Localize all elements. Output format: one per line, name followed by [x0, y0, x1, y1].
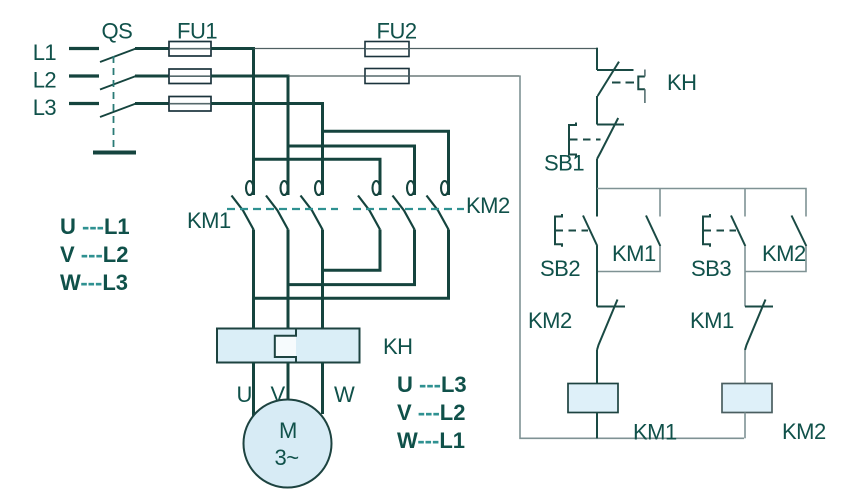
svg-text:L1: L1	[33, 40, 57, 65]
wire coil KM1 to rail	[596, 413, 598, 439]
wire KM2 pole3 to U	[254, 230, 449, 299]
contactor KM1 pole 2 fixed contact	[281, 181, 288, 195]
wire KM1 pole3 down	[321, 230, 324, 329]
label mapping block 2	[397, 372, 467, 453]
wire KM1 pole2 down	[287, 230, 290, 329]
wire L3 to FU1	[135, 102, 170, 105]
thermal relay KH NC contact bar	[597, 69, 634, 71]
svg-text:W---L1: W---L1	[397, 428, 465, 453]
fuse FU1 pole 2	[169, 69, 211, 84]
svg-text:KM2: KM2	[782, 419, 826, 444]
fuse FU2 pole 1	[365, 42, 409, 57]
svg-text:SB2: SB2	[540, 256, 580, 281]
svg-text:FU2: FU2	[377, 19, 417, 44]
contact KM2 aux blade	[792, 216, 807, 247]
motor M circle	[244, 400, 332, 488]
wire KM2 pole2 to V	[288, 230, 415, 285]
wire L2 to FU1	[135, 75, 170, 78]
svg-text:KM2: KM2	[762, 241, 806, 266]
thermal relay KH trip tail	[644, 89, 646, 103]
switch QS handle bar	[93, 151, 136, 155]
svg-text:KM2: KM2	[466, 193, 510, 218]
svg-text:L2: L2	[33, 68, 57, 93]
thermal relay KH heater jog	[275, 329, 296, 363]
contact KM2 NC bar	[597, 306, 625, 308]
svg-text:KH: KH	[667, 70, 697, 95]
thermal relay KH heater box	[217, 329, 360, 363]
contactor KM2 pole 1 blade	[358, 196, 380, 230]
wire L2 drop	[287, 76, 290, 195]
svg-text:V ---L2: V ---L2	[60, 242, 128, 267]
svg-text:L3: L3	[33, 95, 57, 120]
svg-text:KM2: KM2	[528, 308, 572, 333]
wire L1 to FU1	[135, 47, 170, 50]
svg-text:KM1: KM1	[690, 308, 734, 333]
pushbutton SB3 dashes	[704, 230, 737, 232]
wire L1 stub	[69, 47, 99, 50]
thermal relay KH heater notch white	[276, 337, 296, 357]
svg-text:W: W	[334, 382, 355, 407]
wire SB1 to node	[596, 159, 598, 217]
coil KM2	[722, 384, 772, 413]
pushbutton SB2 blade	[583, 216, 597, 247]
svg-text:V ---L2: V ---L2	[397, 400, 465, 425]
contactor KM1 pole 3 blade	[301, 196, 323, 230]
wire SB2 to KM2 NC	[596, 246, 598, 307]
wire W to motor	[321, 363, 324, 415]
contact KM1 aux wire top	[659, 189, 661, 217]
wire FU2 to control left rail	[409, 75, 521, 77]
svg-text:M: M	[279, 418, 297, 443]
pushbutton SB1 bar	[597, 124, 624, 126]
contactor KM1 pole 2 blade	[266, 196, 288, 230]
pushbutton SB3 actuator bracket	[703, 214, 710, 247]
contactor KM1 pole 3 fixed contact	[315, 181, 322, 195]
contact KM1 NC blade	[745, 300, 766, 351]
wire V to motor	[287, 363, 290, 402]
wire control rail	[597, 189, 806, 217]
thermal relay KH trip bracket	[638, 77, 645, 90]
wire coil KM2 to rail	[744, 413, 746, 439]
switch QS blade pole 3	[100, 104, 136, 118]
contactor KM2 pole 3 fixed contact	[441, 181, 448, 195]
fuse FU1 pole 3	[169, 97, 211, 112]
contact KM1 aux blade	[646, 216, 660, 247]
contact KM2 NC blade	[597, 300, 618, 351]
wire FU2 to control top	[409, 48, 598, 50]
switch QS blade pole 2	[100, 76, 136, 90]
wire KM1 pole1 down	[252, 230, 255, 329]
wire L2 FU1 to drop	[211, 75, 290, 78]
wire KH to SB1	[596, 96, 598, 125]
wire KM2 NC to coil	[596, 350, 598, 384]
contactor KM2 pole 1 fixed contact	[373, 181, 380, 195]
wire L1 to FU2 thin	[254, 48, 367, 50]
svg-text:U: U	[237, 382, 252, 407]
label mapping block 1	[60, 214, 130, 295]
wire rail L1 to KM2 pole1	[254, 159, 381, 195]
svg-text:W---L3: W---L3	[60, 270, 128, 295]
switch QS blade pole 1	[100, 49, 136, 63]
wire U to motor	[252, 363, 255, 417]
fuse FU2 pole 2	[365, 69, 409, 84]
wire KM1 NC to coil	[744, 350, 746, 384]
contactor KM2 pole 3 blade	[427, 196, 449, 230]
svg-text:FU1: FU1	[177, 19, 217, 44]
pushbutton SB1 dashes	[570, 139, 601, 141]
switch QS linkage dashed	[113, 56, 115, 149]
wire SB3 to KM1 NC	[744, 246, 746, 307]
pushbutton SB3 blade	[731, 216, 745, 247]
svg-text:U ---L3: U ---L3	[397, 372, 467, 397]
svg-text:SB1: SB1	[544, 151, 584, 176]
svg-text:QS: QS	[102, 19, 133, 44]
fuse FU1 pole 1	[169, 42, 211, 57]
wire rail L2 to KM2 pole2	[288, 146, 415, 195]
thermal relay KH trip dashes	[612, 82, 635, 84]
svg-text:U ---L1: U ---L1	[60, 214, 130, 239]
wire L1 FU1 to drop	[211, 47, 255, 50]
svg-text:3~: 3~	[275, 445, 299, 470]
contact KM1 NC bar	[745, 306, 773, 308]
pushbutton SB1 blade	[597, 118, 618, 159]
wire KM2 pole1 to W	[323, 230, 381, 271]
svg-text:KH: KH	[383, 334, 413, 359]
wire L2 to FU2 thin	[288, 75, 366, 77]
svg-text:KM1: KM1	[187, 208, 231, 233]
contactor KM1 pole 1 fixed contact	[246, 181, 253, 195]
svg-text:KM1: KM1	[612, 241, 656, 266]
contactor KM1 pole 1 blade	[232, 196, 254, 230]
contactor KM1 linkage dashed	[227, 208, 338, 210]
coil KM1	[568, 384, 618, 413]
wire L1 drop	[252, 49, 255, 196]
wire L3 stub	[69, 102, 99, 105]
thermal relay KH NC contact blade	[598, 62, 619, 96]
contactor KM2 pole 2 blade	[393, 196, 415, 230]
pushbutton SB3 wire top	[744, 189, 746, 217]
wire L3 FU1 to drop	[211, 102, 324, 105]
contactor KM2 linkage dashed	[353, 208, 464, 210]
wire L3 drop	[321, 104, 324, 196]
contact KM1 aux wire bottom	[597, 246, 660, 272]
contactor KM2 pole 2 fixed contact	[407, 181, 414, 195]
wire L2 stub	[69, 74, 99, 77]
svg-text:SB3: SB3	[691, 256, 731, 281]
svg-text:KM1: KM1	[633, 420, 677, 445]
pushbutton SB2 actuator bracket	[555, 214, 562, 247]
pushbutton SB1 actuator bracket	[569, 123, 576, 158]
contact KM2 aux wire bottom	[745, 246, 806, 272]
wire rail L3 to KM2 pole3	[323, 131, 449, 195]
pushbutton SB2 dashes	[556, 230, 589, 232]
